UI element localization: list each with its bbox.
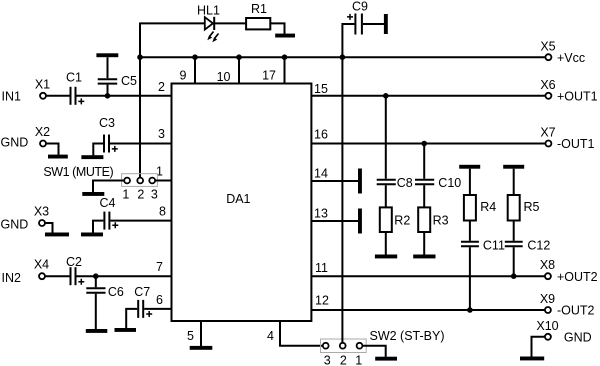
svg-text:IN1: IN1 [2,90,22,104]
svg-text:C10: C10 [438,176,461,190]
terminal X9 [545,307,551,313]
node bus-left [137,54,143,60]
svg-text:C11: C11 [483,239,505,253]
svg-text:3: 3 [158,127,165,141]
ground (pin 5) [190,346,213,350]
capacitor C10 [415,144,434,208]
svg-text:GND: GND [564,331,592,345]
wire pin 14 [311,180,358,182]
svg-text:2: 2 [137,188,144,202]
ground (SW2) [375,357,397,361]
svg-text:C9: C9 [352,0,368,14]
svg-text:R1: R1 [251,2,267,16]
terminal X5 [545,54,551,60]
svg-text:HL1: HL1 [197,4,220,18]
wire X1 to C1 [47,95,70,97]
svg-text:17: 17 [262,69,276,83]
svg-text:C8: C8 [397,176,413,190]
wire C7 to pin 6 [144,308,171,310]
svg-text:9: 9 [180,69,187,83]
wire R5 to C12 [513,221,515,241]
terminal bar (pin 13) [358,209,362,234]
switch SW1 [122,174,158,187]
wire stub pin 10 [238,57,240,83]
svg-text:X2: X2 [35,125,50,139]
capacitor C6 [86,276,105,329]
IC op-amp U DA1 body [172,84,312,322]
terminal bar (R5 top) [503,165,524,169]
svg-text:X4: X4 [34,258,49,272]
resistor R5 [508,195,520,221]
wire C9 branch up [342,24,354,57]
wire C4 to pin 8 [110,220,171,222]
capacitor C4 [104,212,118,230]
wire X2 to ground [47,144,59,155]
svg-text:X3: X3 [34,205,49,219]
svg-text:X9: X9 [540,292,555,306]
svg-text:R5: R5 [524,200,540,214]
capacitor C11 [461,242,479,310]
ground (C7) [115,328,137,332]
svg-text:1: 1 [122,188,129,202]
wire X3 to ground [46,223,53,233]
svg-text:11: 11 [315,261,328,275]
wire SW1 pin3 to IC pin 1 [155,180,171,182]
svg-text:X10: X10 [536,319,558,333]
wire pin 15 to X6 [311,95,544,97]
svg-text:3: 3 [151,188,158,202]
terminal X7 [545,141,551,147]
svg-text:R2: R2 [394,214,410,228]
node C8 junction [383,93,389,99]
terminal X1 [40,93,46,99]
wire stub pin 17 [284,57,286,83]
svg-text:C1: C1 [66,71,82,85]
ground (X2) [48,155,68,159]
svg-text:C12: C12 [527,239,550,253]
svg-text:3: 3 [324,354,331,366]
wire bar to R5 [513,169,515,195]
svg-text:8: 8 [159,205,166,219]
wire pin 11 to X8 [311,275,544,277]
svg-text:14: 14 [314,167,328,181]
node C5 junction [105,93,111,99]
capacitor C3 [104,135,118,153]
node R5/C12 junction [511,273,517,279]
capacitor C7 [138,300,152,318]
wire R3 to ground [423,232,425,255]
svg-text:5: 5 [187,329,194,343]
wire pin 5 [200,321,202,346]
svg-text:GND: GND [1,136,29,150]
svg-text:6: 6 [156,293,163,307]
switch SW2 [321,339,367,353]
capacitor C2 [71,267,85,285]
ground (C6) [86,329,108,333]
wire R1 to ground [270,23,284,34]
wire C7 left to ground [126,309,137,328]
node C10 junction [421,141,427,147]
svg-text:12: 12 [315,294,329,308]
svg-text:16: 16 [314,128,328,142]
svg-text:DA1: DA1 [226,192,250,206]
svg-text:-OUT1: -OUT1 [557,137,595,151]
terminal X3 [39,220,45,226]
capacitor C5 [96,53,118,96]
svg-text:4: 4 [267,329,274,343]
resistor R1 [246,18,270,29]
ground (R1) [275,34,295,38]
svg-text:+OUT2: +OUT2 [557,270,598,284]
wire X10 to ground [532,337,545,357]
node pin9 [192,54,198,60]
wire bar to R4 [469,169,471,195]
wire R2 to ground [385,232,387,255]
wire C3 left to ground [93,144,103,156]
terminal X10 [545,334,551,340]
resistor R3 [418,207,430,232]
svg-text:X5: X5 [540,40,555,54]
svg-text:15: 15 [314,82,328,96]
wire C2 to pin 7 [77,275,172,277]
capacitor C1 [71,87,85,105]
wire C3 to pin 3 [110,143,172,145]
resistor R2 [380,207,392,232]
ground (R2) [375,255,397,259]
wire stub pin 9 [194,57,196,83]
wire LED to R1 [214,22,246,24]
wire pin 13 [311,220,358,222]
svg-text:2: 2 [340,354,347,366]
terminal X8 [545,273,551,279]
terminal bar (R4 top) [459,165,480,169]
wire pin 16 to X7 [311,143,544,145]
svg-text:X6: X6 [540,78,555,92]
node pin10 [236,54,242,60]
node R4/C11 junction [467,307,473,313]
wire pin 4 to SW2 pin3 [280,321,323,346]
wire R4 to C11 [469,221,471,241]
ground (X10) [520,357,544,361]
svg-text:C7: C7 [134,285,150,299]
ground (C3) [81,155,103,159]
svg-text:SW2 (ST-BY): SW2 (ST-BY) [370,329,445,343]
wire C4 left to ground [93,221,103,233]
wire top rail from left vertical to LED [140,22,205,24]
node C9 branch [340,54,346,60]
svg-text:R4: R4 [480,200,496,214]
svg-text:R3: R3 [433,214,449,228]
LED HL1 [205,17,219,42]
terminal bar (pin 14) [358,169,362,194]
capacitor C9 [347,14,362,35]
svg-text:-OUT2: -OUT2 [557,304,595,318]
terminal bar (C9) [384,14,388,34]
node pin17 [282,54,288,60]
capacitor C8 [377,96,396,208]
terminal X2 [40,141,46,147]
wire +Vcc bus y57 [140,56,545,58]
wire SW2 pin2 up to bus [341,57,343,343]
ground (X3) [45,233,69,237]
svg-text:X1: X1 [35,78,50,92]
node C6 junction [93,273,99,279]
svg-text:SW1 (MUTE): SW1 (MUTE) [43,165,113,179]
svg-text:C4: C4 [100,196,116,210]
wire left vertical x140 from top rail to SW1 pin2 [139,23,141,178]
svg-text:1: 1 [355,354,362,366]
wire SW1 pin1 to ground [93,181,124,193]
ground (R3) [413,255,435,259]
wire X4 to C2 [46,275,70,277]
svg-text:GND: GND [1,218,29,232]
svg-text:C3: C3 [99,116,115,130]
svg-text:X8: X8 [540,258,555,272]
svg-text:+OUT1: +OUT1 [557,90,598,104]
svg-text:7: 7 [156,260,163,274]
svg-text:+Vcc: +Vcc [557,51,585,65]
svg-text:2: 2 [158,80,165,94]
wire C1 to pin 2 [77,95,172,97]
terminal X6 [545,93,551,99]
wire pin 12 to X9 [311,309,544,311]
ground (SW1) [82,192,104,196]
wire C9 to bar [363,23,384,25]
svg-text:10: 10 [217,70,231,84]
svg-text:C5: C5 [121,74,137,88]
resistor R4 [464,195,476,221]
wire SW2 pin1 to ground [362,346,385,357]
svg-text:IN2: IN2 [2,271,22,285]
svg-text:X7: X7 [540,126,555,140]
svg-text:13: 13 [314,207,328,221]
terminal X4 [39,273,45,279]
ground (C4) [81,233,103,237]
svg-text:C2: C2 [66,255,82,269]
capacitor C12 [505,242,523,276]
svg-text:C6: C6 [108,285,124,299]
